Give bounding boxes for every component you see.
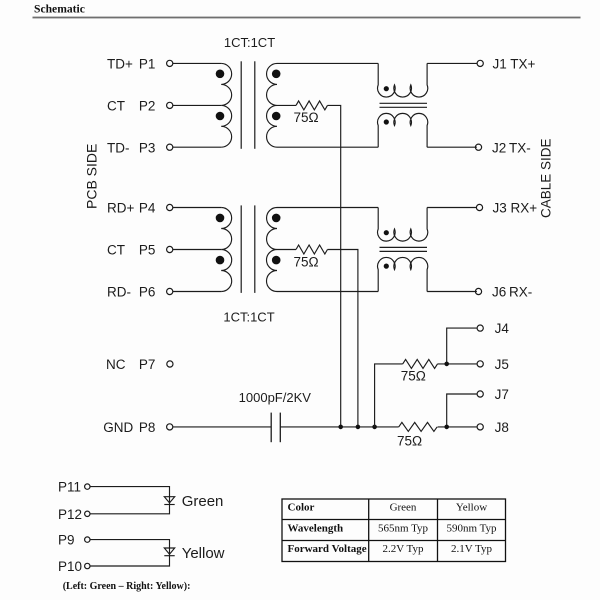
L1 bottom winding polarity dot [384, 119, 389, 124]
wire L2 to J6 [427, 291, 477, 293]
svg-text:J7: J7 [495, 387, 509, 402]
T1 primary polarity dot (bottom coil) [216, 112, 225, 121]
common-mode choke L2 core [380, 247, 428, 251]
wire P8 to capacitor C1 [173, 426, 271, 428]
wire node J8 up to J7 [447, 394, 477, 427]
pin J4 [477, 321, 509, 336]
svg-text:P10: P10 [58, 559, 82, 574]
pin J2 TX- [475, 140, 530, 155]
pin P3 TD- [107, 140, 173, 155]
svg-text:Forward Voltage: Forward Voltage [288, 543, 367, 555]
transformer T2 secondary winding [267, 208, 278, 292]
svg-text:Color: Color [288, 502, 315, 514]
wire T2 secondary center tap to resistor R2 [277, 249, 296, 251]
svg-text:P4: P4 [139, 201, 156, 216]
wire R4 to J8 [438, 426, 477, 428]
LED D1 Green diode symbol [164, 497, 174, 505]
pin P12 [58, 507, 90, 522]
resistor R1 75ohm [296, 101, 327, 110]
wire P1 to T1 primary [173, 62, 221, 64]
pin P2 CT [107, 99, 173, 114]
common-mode choke L2 bottom winding [378, 257, 428, 291]
svg-text:NC: NC [106, 357, 126, 372]
L1 top winding polarity dot [384, 86, 389, 91]
svg-text:P11: P11 [58, 480, 81, 495]
wire P9 through LED D2 to P10 [90, 540, 169, 566]
resistor R3 75ohm (J4/J5) [403, 359, 438, 368]
resistor R2 75ohm [296, 245, 327, 254]
common-mode choke L1 core [380, 103, 428, 107]
wire R1 to ground rail [327, 105, 340, 427]
wire P4 to T2 primary [173, 207, 221, 209]
T2 primary polarity dot (top) [216, 214, 225, 223]
pin P10 [58, 559, 90, 574]
svg-text:P5: P5 [139, 243, 156, 258]
svg-text:J3 RX+: J3 RX+ [493, 201, 538, 216]
pin J1 TX+ [477, 57, 535, 72]
wire T1 secondary top to choke L1 [277, 62, 378, 64]
wire R3 left end to ground rail [375, 364, 403, 427]
svg-text:Wavelength: Wavelength [288, 522, 344, 534]
wire T1 secondary bottom to choke L1 [277, 146, 378, 148]
svg-text:75Ω: 75Ω [293, 255, 318, 270]
svg-text:Yellow: Yellow [456, 502, 487, 514]
pin J7 [477, 387, 509, 402]
LED characteristics table [282, 499, 506, 562]
pin P5 CT [107, 243, 173, 258]
wire L1 to J2 [427, 146, 477, 148]
resistor R4 75ohm (J7/J8) [399, 422, 437, 431]
svg-text:75Ω: 75Ω [397, 434, 422, 449]
svg-text:J2 TX-: J2 TX- [492, 140, 531, 155]
pin J6 RX- [475, 285, 532, 300]
pin P6 RD- [107, 285, 173, 300]
svg-text:RD+: RD+ [107, 201, 134, 216]
capacitor C1 1000pF/2KV [271, 413, 280, 443]
wire T2 secondary top to choke L2 [277, 207, 378, 209]
svg-text:CABLE SIDE: CABLE SIDE [538, 138, 553, 218]
T1 primary polarity dot (top) [216, 70, 225, 79]
svg-text:2.1V Typ: 2.1V Typ [451, 543, 492, 555]
T2 primary polarity dot (bottom coil) [216, 256, 225, 265]
wire T2 secondary bottom to choke L2 [277, 291, 378, 293]
transformer T1 core [241, 61, 255, 149]
wire L1 to J1 [427, 62, 477, 64]
wire P5 to T2 primary center tap [173, 249, 221, 251]
common-mode choke L1 bottom winding [378, 113, 428, 147]
junction node J5 branch [444, 362, 449, 367]
svg-text:P12: P12 [58, 507, 82, 522]
table row Color [288, 502, 488, 514]
wire C1 to ground rail [280, 426, 398, 428]
svg-text:2.2V Typ: 2.2V Typ [383, 543, 424, 555]
svg-text:CT: CT [107, 243, 125, 258]
table row Wavelength [288, 522, 498, 534]
L2 top winding polarity dot [384, 230, 389, 235]
svg-text:565nm Typ: 565nm Typ [378, 522, 429, 534]
wire P11 through LED D1 to P12 [90, 487, 169, 514]
svg-text:P7: P7 [139, 357, 156, 372]
T1 secondary polarity dot (top) [272, 70, 281, 79]
transformer T1 secondary winding [267, 63, 277, 147]
svg-text:P3: P3 [139, 140, 156, 155]
svg-text:P1: P1 [139, 57, 156, 72]
pin P7 NC [106, 357, 173, 372]
pin J3 RX+ [476, 201, 537, 216]
pin J8 [477, 420, 509, 435]
svg-text:Green: Green [390, 502, 417, 514]
svg-text:TD-: TD- [107, 140, 130, 155]
pin P1 TD+ [107, 57, 173, 72]
svg-text:(Left: Green – Right: Yellow):: (Left: Green – Right: Yellow): [63, 581, 191, 592]
svg-text:J6 RX-: J6 RX- [492, 285, 532, 300]
T2 secondary polarity dot (bottom coil) [272, 256, 281, 265]
pin P11 [58, 480, 90, 495]
svg-text:P6: P6 [139, 285, 156, 300]
T2 secondary polarity dot (top) [272, 214, 281, 223]
pin P9 [58, 533, 90, 548]
svg-text:P9: P9 [58, 533, 75, 548]
common-mode choke L1 top winding [378, 63, 428, 97]
svg-text:RD-: RD- [107, 285, 131, 300]
svg-text:GND: GND [103, 420, 133, 435]
svg-text:CT: CT [107, 99, 125, 114]
wire node J5 up to J4 [447, 328, 477, 364]
svg-text:P2: P2 [139, 99, 156, 114]
transformer T1 primary winding [221, 63, 231, 147]
svg-text:1000pF/2KV: 1000pF/2KV [239, 390, 312, 405]
pin P4 RD+ [107, 201, 173, 216]
svg-text:Green: Green [182, 493, 224, 510]
T1 secondary polarity dot (bottom coil) [272, 112, 281, 121]
junction node rail/R1 [338, 425, 343, 430]
junction node rail/R2 [356, 425, 361, 430]
svg-text:75Ω: 75Ω [401, 369, 426, 384]
pin J5 [477, 357, 509, 372]
svg-text:J8: J8 [495, 420, 509, 435]
svg-text:Yellow: Yellow [182, 545, 225, 562]
horizontal rule under title [33, 17, 581, 19]
wire P6 to T2 primary [173, 291, 221, 293]
junction node J8 branch [444, 425, 449, 430]
wire R3 to J5 [438, 363, 477, 365]
table row Forward Voltage [288, 543, 493, 555]
svg-text:J1 TX+: J1 TX+ [493, 57, 536, 72]
svg-text:1CT:1CT: 1CT:1CT [223, 309, 274, 324]
LED D2 Yellow diode symbol [164, 548, 174, 556]
svg-text:TD+: TD+ [107, 57, 133, 72]
junction node rail/R3 [372, 425, 377, 430]
svg-text:Schematic: Schematic [34, 3, 85, 16]
wire T1 secondary center tap to resistor R1 [277, 104, 296, 106]
svg-text:PCB SIDE: PCB SIDE [84, 144, 100, 209]
svg-text:75Ω: 75Ω [293, 110, 318, 125]
common-mode choke L2 top winding [378, 208, 428, 242]
L2 bottom winding polarity dot [384, 264, 389, 269]
pin P8 GND [103, 420, 173, 435]
transformer T2 core [241, 205, 255, 293]
wire P3 to T1 primary [173, 146, 221, 148]
transformer T2 primary winding [221, 208, 232, 292]
svg-text:J5: J5 [495, 357, 509, 372]
wire P2 to T1 primary center tap [173, 104, 221, 106]
svg-text:P8: P8 [139, 420, 156, 435]
wire R2 to ground rail [327, 250, 357, 427]
wire L2 to J3 [427, 207, 477, 209]
svg-text:J4: J4 [495, 321, 510, 336]
svg-text:1CT:1CT: 1CT:1CT [224, 35, 275, 50]
svg-text:590nm Typ: 590nm Typ [446, 522, 497, 534]
